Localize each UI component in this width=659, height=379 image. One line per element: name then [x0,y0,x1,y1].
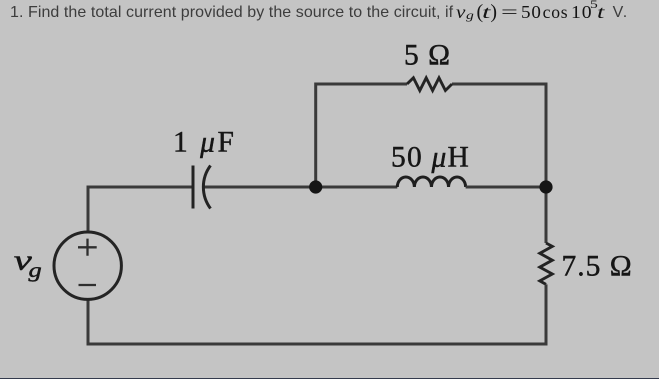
svg-text:5 Ω: 5 Ω [404,40,451,72]
svg-text:g: g [29,259,42,282]
svg-text:50 μH: 50 μH [391,142,470,174]
svg-text:7.5 Ω: 7.5 Ω [562,250,633,282]
svg-text:1 μF: 1 μF [173,127,236,159]
